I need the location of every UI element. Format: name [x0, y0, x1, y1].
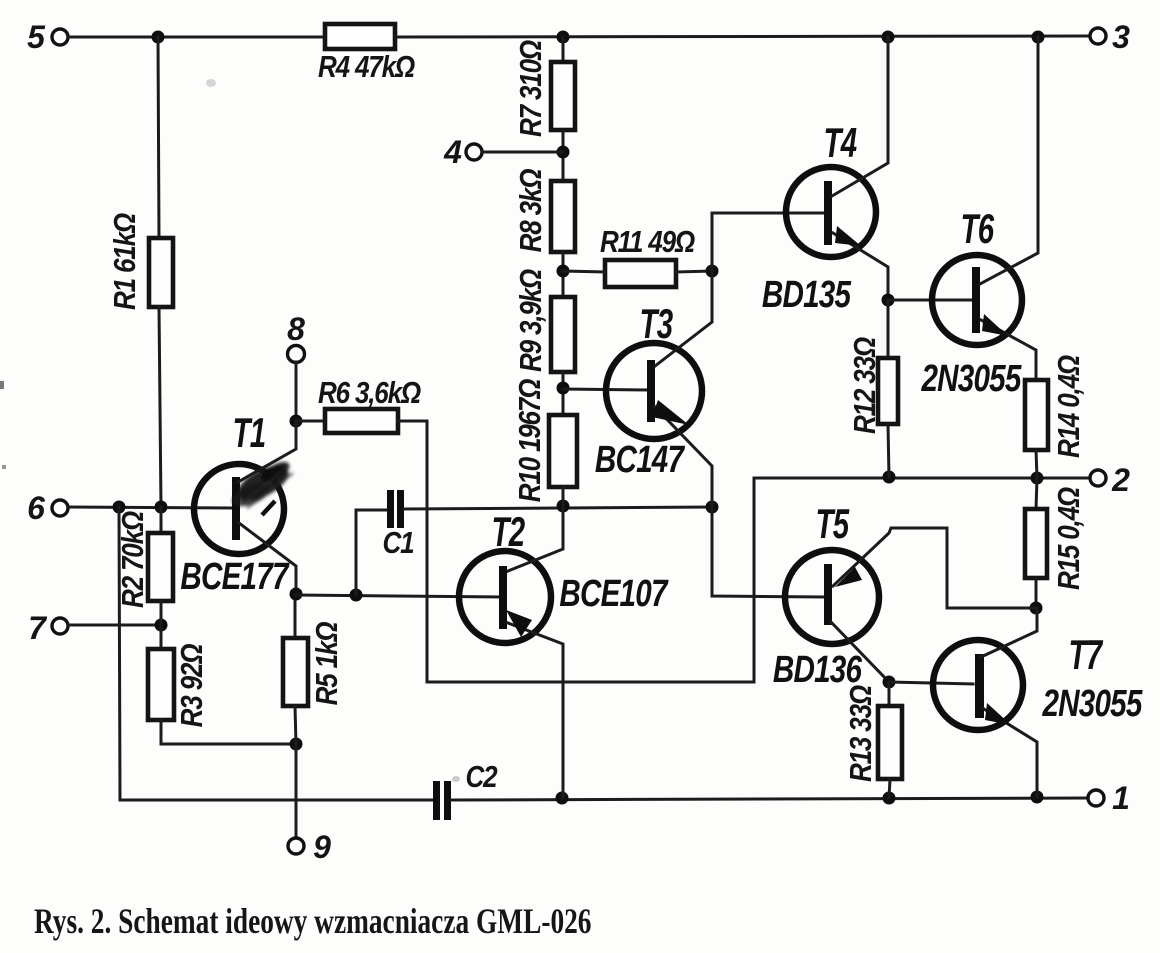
svg-text:R8 3kΩ: R8 3kΩ: [514, 169, 549, 253]
svg-text:T3: T3: [640, 300, 673, 348]
svg-text:3: 3: [1112, 19, 1130, 55]
wire R14 bottom stub: [1036, 450, 1037, 478]
svg-text:4: 4: [443, 134, 462, 170]
wire R3 bottom to node: [161, 720, 296, 744]
wire column R7 top stub: [562, 37, 565, 62]
svg-text:T6: T6: [961, 205, 995, 253]
junction top rail at column: [557, 31, 570, 44]
node 2 terminal: [1090, 462, 1130, 498]
transistor T1: [180, 409, 296, 598]
node 4 terminal: [443, 134, 482, 170]
junction bottom rail T7 emitter: [1031, 791, 1044, 804]
svg-text:R10 1967Ω: R10 1967Ω: [513, 379, 548, 502]
svg-text:8: 8: [287, 311, 305, 347]
junction T5 emitter / R13 / T7 base: [883, 676, 896, 689]
wire left rail down: [119, 507, 120, 800]
resistor R4: [318, 24, 415, 85]
svg-text:R1 61kΩ: R1 61kΩ: [108, 213, 143, 310]
junction T3 base: [557, 382, 570, 395]
svg-text:T2: T2: [492, 508, 525, 556]
wire R11 right stub: [676, 271, 712, 272]
wire T3 base: [563, 389, 650, 390]
smudge artifact on T1: [229, 458, 294, 511]
wire bottom rail right of C2: [451, 798, 1089, 800]
resistor R2: [116, 511, 173, 608]
resistor R1: [108, 213, 173, 310]
junction bottom rail R13: [883, 792, 896, 805]
junction R14/R15: [1031, 472, 1044, 485]
wire terminal 8 down: [295, 362, 298, 421]
wire R8-R9: [562, 252, 565, 297]
wire emitter rail y682: [427, 478, 754, 682]
svg-text:T7: T7: [1069, 631, 1104, 679]
wire R15 top stub: [1036, 478, 1037, 509]
wire 6 to T1 base: [68, 507, 233, 508]
wire 5 to R4: [68, 36, 325, 39]
wire R13 bottom stub: [889, 779, 890, 798]
svg-text:9: 9: [313, 829, 331, 865]
wire T4 base: [712, 213, 826, 271]
scan speck: [2, 465, 6, 469]
svg-text:R3 92Ω: R3 92Ω: [175, 644, 210, 728]
wire C1 right to column: [404, 507, 712, 509]
wire terminal 4: [482, 151, 563, 154]
node 1 terminal: [1088, 780, 1130, 816]
svg-text:R5 1kΩ: R5 1kΩ: [310, 622, 345, 706]
node 5 terminal: [27, 19, 68, 55]
wire R9-R10: [562, 372, 565, 415]
svg-text:R14 0,4Ω: R14 0,4Ω: [1052, 355, 1087, 458]
wire R5 bottom stub: [295, 706, 296, 744]
svg-text:1: 1: [1112, 780, 1130, 816]
wire R5 top stub: [294, 594, 297, 638]
wire R3 top stub: [160, 625, 163, 649]
resistor R9: [514, 269, 575, 372]
resistor R7: [514, 40, 575, 137]
junction top of R1 column: [152, 31, 165, 44]
svg-text:BCE107: BCE107: [559, 573, 669, 615]
wire bottom rail left of C2: [120, 799, 434, 802]
svg-text:BC147: BC147: [595, 439, 686, 481]
transistor T5: [773, 500, 1036, 691]
junction T4 emitter / T6 base: [882, 294, 895, 307]
transistor T3: [595, 271, 825, 597]
junction C1 branch: [350, 589, 363, 602]
junction R6/T1 collector: [290, 415, 303, 428]
scan speck: [452, 776, 460, 782]
resistor R3: [148, 644, 210, 728]
wire rail to terminal 2: [754, 477, 1090, 480]
svg-text:BD135: BD135: [762, 274, 852, 316]
junction R11 right / T4 base: [706, 265, 719, 278]
node 7 terminal: [28, 610, 68, 646]
wire 7: [68, 624, 161, 627]
svg-text:R4 47kΩ: R4 47kΩ: [318, 50, 415, 85]
transistor T7: [933, 608, 1143, 797]
svg-text:R6 3,6kΩ: R6 3,6kΩ: [318, 376, 421, 411]
junction top rail T4 collector: [882, 31, 895, 44]
svg-text:T5: T5: [816, 500, 850, 548]
wire C1 left branch: [356, 510, 387, 595]
junction R12 bottom: [883, 471, 896, 484]
svg-text:R9 3,9kΩ: R9 3,9kΩ: [514, 269, 549, 372]
wire R2 bottom stub: [160, 601, 163, 625]
svg-text:R11 49Ω: R11 49Ω: [600, 225, 695, 260]
junction wire6 left rail: [113, 501, 126, 514]
wire R13 top stub: [888, 682, 891, 706]
svg-text:5: 5: [27, 19, 46, 55]
junction T3 emitter column: [706, 501, 719, 514]
wire R15 bottom stub: [1035, 578, 1038, 608]
capacitor C2: [433, 760, 498, 820]
resistor R6: [318, 376, 421, 433]
junction wire6 R2: [155, 501, 168, 514]
wire R2 top stub: [160, 507, 163, 533]
svg-text:R2 70kΩ: R2 70kΩ: [116, 511, 151, 608]
svg-text:2N3055: 2N3055: [1042, 683, 1144, 725]
resistor R10: [513, 379, 577, 502]
junction R15 bottom / T5 collector / T7 collector: [1030, 602, 1043, 615]
wire R6 right down to emitter line: [398, 421, 427, 682]
transistor T6: [921, 37, 1038, 400]
resistor R11: [600, 225, 695, 287]
junction wire7 R2/R3: [155, 619, 168, 632]
transistor T2: [459, 506, 669, 798]
svg-text:T4: T4: [824, 119, 857, 167]
transistor T4: [762, 37, 888, 316]
resistor R12: [848, 337, 898, 434]
resistor R8: [514, 169, 575, 253]
resistor R5: [283, 622, 345, 706]
node 8 terminal: [287, 311, 305, 363]
wire R1 top: [158, 37, 159, 238]
node 9 terminal: [288, 829, 331, 865]
wire T1 emitter to T2 base: [296, 595, 503, 597]
junction R3/R5 bottom: [290, 738, 303, 751]
svg-text:Rys. 2. Schemat ideowy wzmacni: Rys. 2. Schemat ideowy wzmacniacza GML-0…: [34, 901, 591, 940]
svg-text:R15 0,4Ω: R15 0,4Ω: [1052, 487, 1087, 590]
capacitor C1: [383, 490, 414, 561]
wire R10 bottom: [562, 487, 565, 506]
resistor R13: [844, 685, 902, 782]
svg-text:R13 33Ω: R13 33Ω: [844, 685, 879, 782]
wire R7-R8: [562, 130, 565, 181]
wire top rail to terminal 3: [395, 36, 1090, 37]
svg-text:2: 2: [1111, 462, 1130, 498]
scan speck: [206, 79, 216, 87]
junction bottom rail T2 emitter: [556, 792, 569, 805]
svg-text:BCE177: BCE177: [180, 556, 290, 598]
svg-text:BD136: BD136: [773, 649, 863, 691]
svg-text:7: 7: [28, 610, 48, 646]
wire R12 top stub: [887, 300, 890, 358]
node 3 terminal: [1090, 19, 1130, 55]
junction top rail T6 collector: [1032, 31, 1045, 44]
wire R12 bottom stub: [888, 424, 889, 477]
wire R6 left stub: [296, 420, 325, 423]
resistor R15: [1025, 487, 1087, 590]
svg-text:C2: C2: [466, 760, 498, 795]
svg-text:R7 310Ω: R7 310Ω: [514, 40, 549, 137]
svg-text:T1: T1: [233, 409, 266, 457]
wire to terminal 9: [295, 744, 298, 838]
wire T7 base: [889, 682, 973, 684]
svg-text:2N3055: 2N3055: [921, 358, 1023, 400]
svg-text:6: 6: [27, 490, 45, 526]
wire R11 left stub: [563, 271, 605, 272]
junction T1 emitter: [290, 588, 303, 601]
scan speck: [0, 381, 4, 389]
resistor R14: [1025, 355, 1087, 458]
wire T6 base: [888, 299, 972, 302]
node 6 terminal: [27, 490, 68, 526]
junction R11 left: [557, 265, 570, 278]
svg-text:C1: C1: [383, 526, 414, 561]
junction R10 bottom / T2 collector: [557, 500, 570, 513]
svg-text:R12 33Ω: R12 33Ω: [848, 337, 883, 434]
junction node 4: [557, 146, 570, 159]
wire R1 bottom to wire6: [159, 307, 161, 507]
